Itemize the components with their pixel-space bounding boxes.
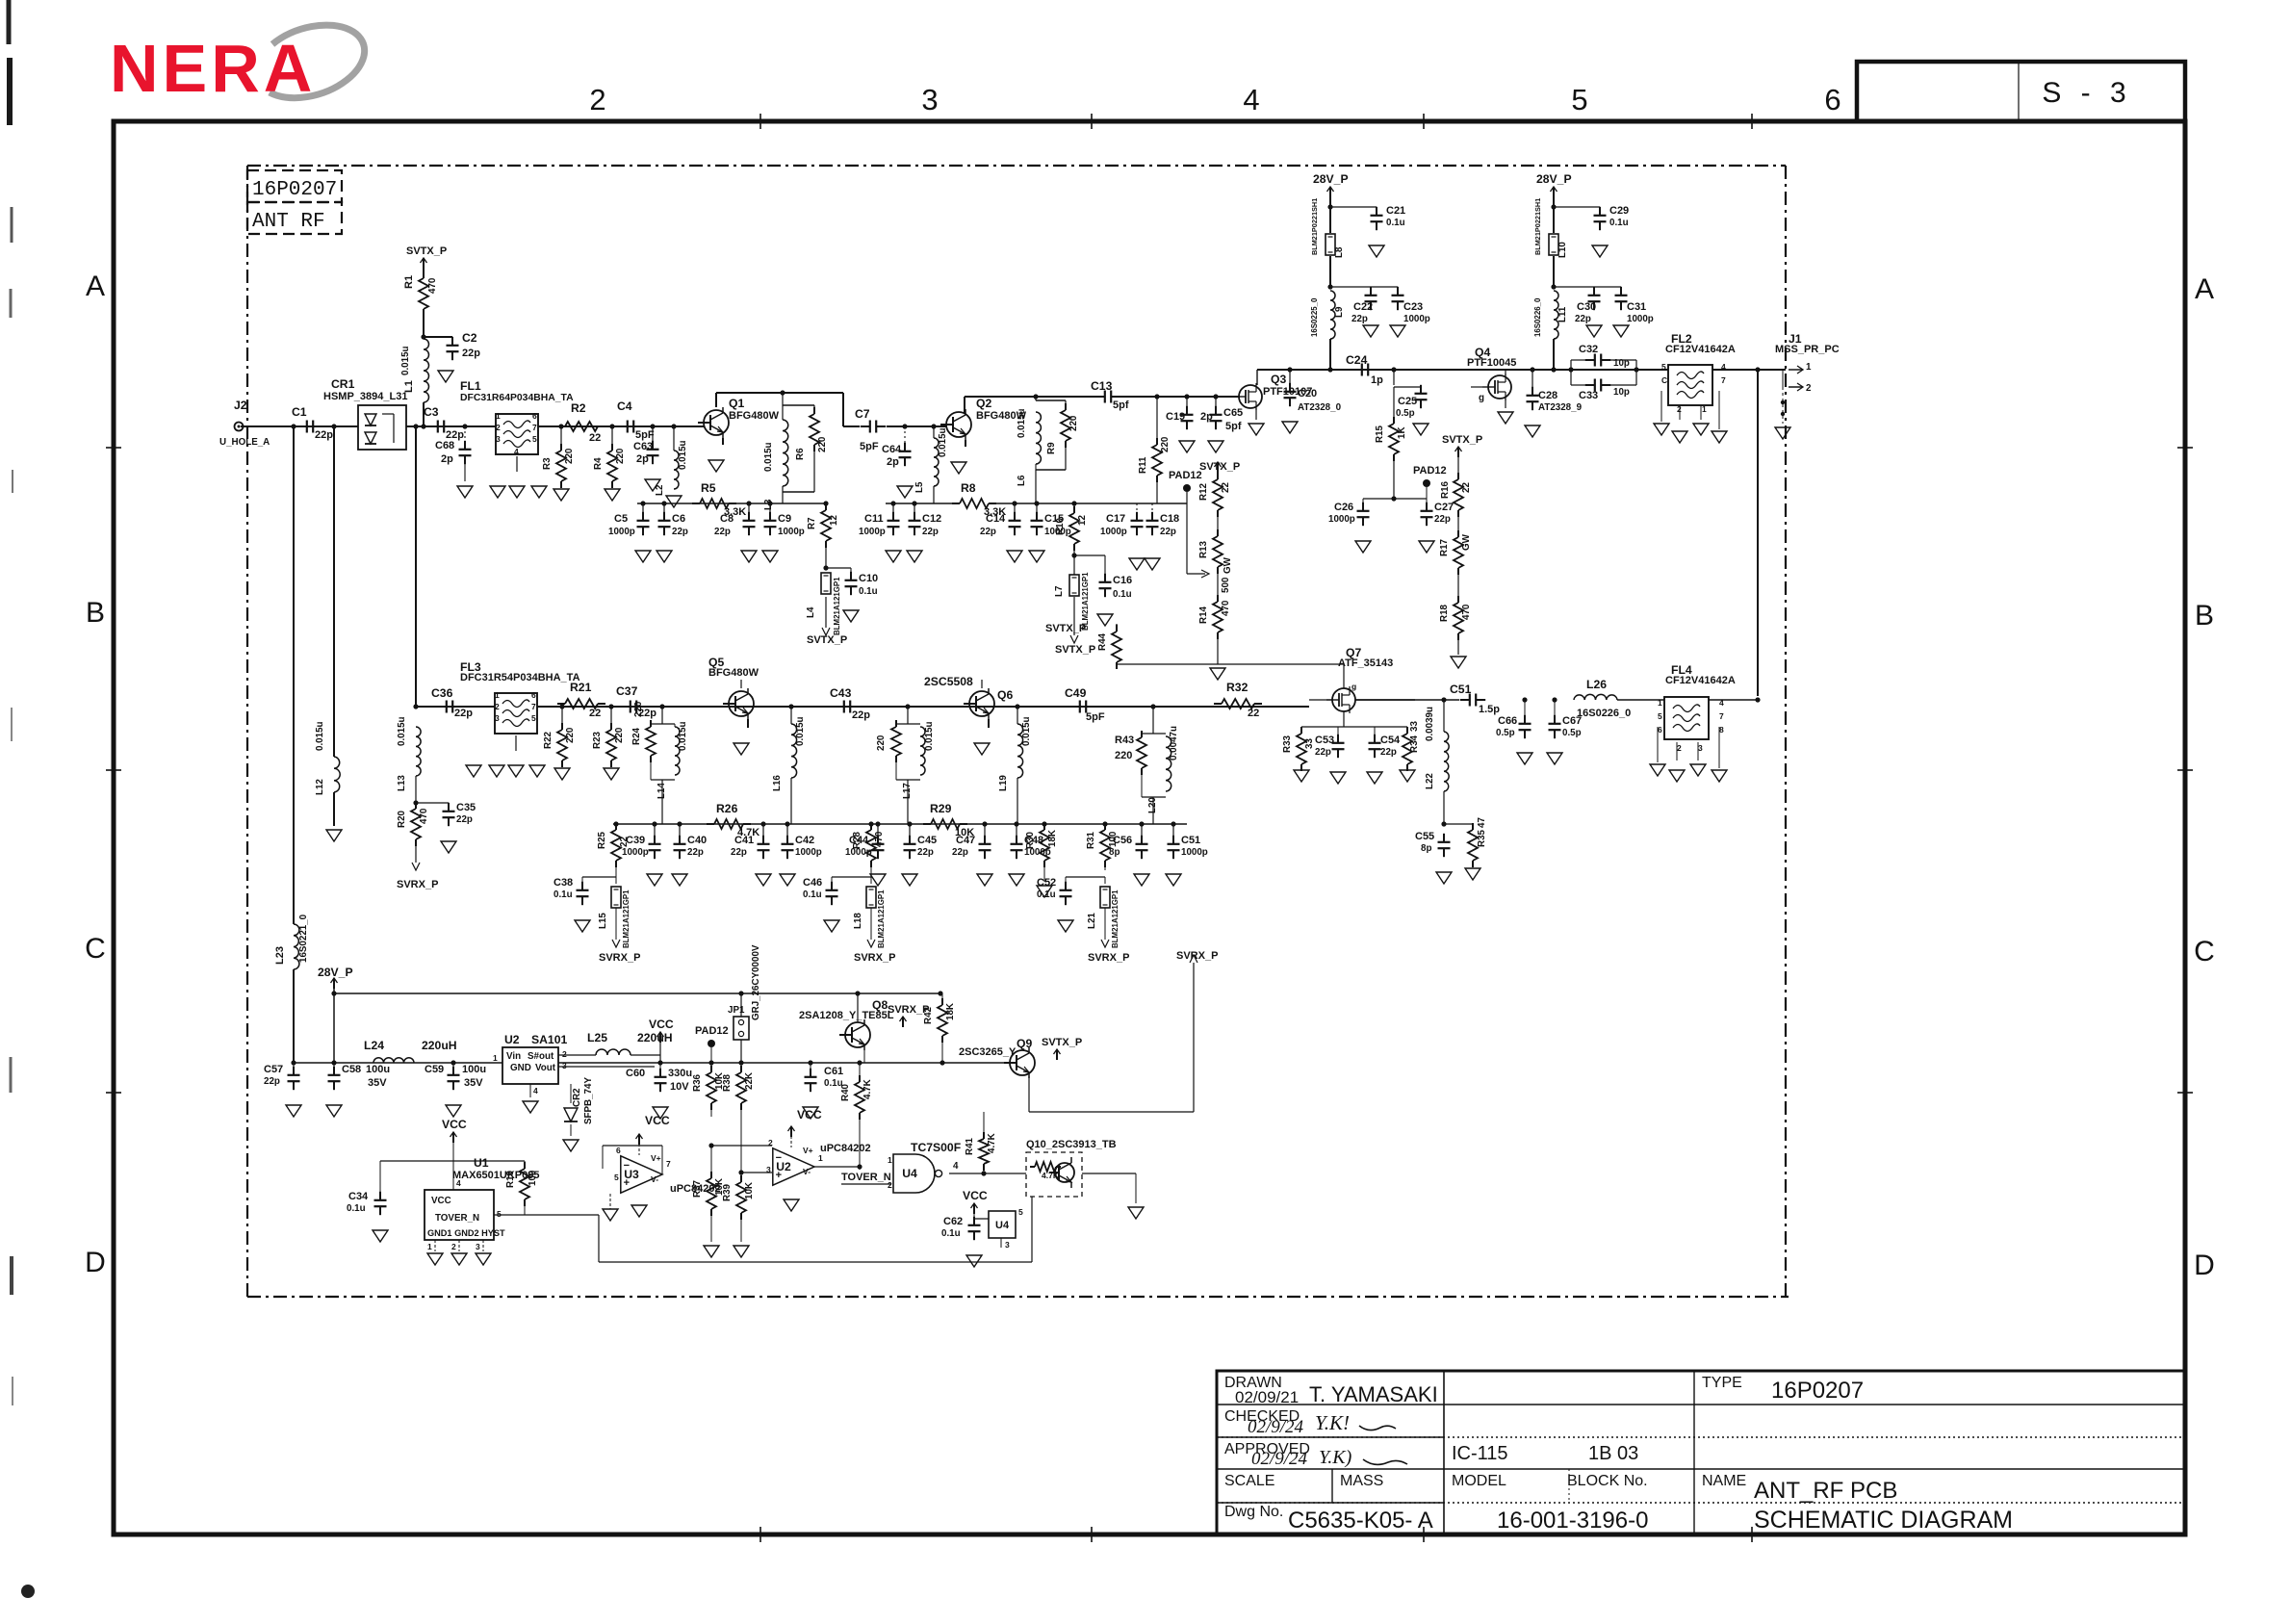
svg-text:AT2328_0: AT2328_0 [1298, 402, 1342, 413]
svg-text:220: 220 [817, 436, 828, 452]
svg-text:IC-115: IC-115 [1452, 1443, 1508, 1464]
svg-text:B: B [2195, 600, 2214, 632]
svg-text:2: 2 [495, 702, 500, 711]
svg-text:8p: 8p [1109, 847, 1120, 858]
svg-text:L19: L19 [998, 775, 1009, 791]
svg-text:L12: L12 [315, 779, 325, 795]
svg-text:6: 6 [532, 411, 537, 421]
svg-text:22p: 22p [456, 814, 473, 825]
svg-text:PAD12: PAD12 [1413, 465, 1447, 477]
svg-text:D: D [85, 1247, 106, 1278]
svg-text:C13: C13 [1091, 379, 1113, 393]
svg-text:C5635-K05- A: C5635-K05- A [1288, 1508, 1433, 1534]
svg-text:C45: C45 [917, 835, 937, 846]
svg-text:22p: 22p [1434, 514, 1451, 525]
svg-text:22p: 22p [952, 847, 968, 858]
svg-text:TC7S00F: TC7S00F [911, 1141, 961, 1154]
svg-text:22p: 22p [264, 1076, 280, 1087]
svg-text:SFPB_74Y: SFPB_74Y [583, 1077, 594, 1124]
svg-text:3: 3 [495, 713, 500, 723]
svg-text:JP1: JP1 [728, 1005, 745, 1016]
svg-text:R2: R2 [571, 401, 586, 415]
svg-text:L11: L11 [1557, 306, 1568, 322]
svg-text:+: + [776, 1170, 782, 1181]
svg-text:C: C [2194, 936, 2215, 967]
svg-text:GW: GW [1223, 556, 1233, 574]
svg-text:R15: R15 [1375, 425, 1385, 443]
svg-text:L1: L1 [403, 380, 415, 393]
svg-text:16S0226_0: 16S0226_0 [1577, 708, 1631, 719]
svg-text:S#out: S#out [528, 1051, 554, 1062]
svg-text:500: 500 [1221, 577, 1231, 593]
svg-text:−: − [776, 1152, 782, 1164]
svg-text:R13: R13 [1198, 540, 1209, 558]
svg-text:C35: C35 [456, 802, 476, 813]
svg-text:L16: L16 [772, 775, 783, 791]
svg-text:C17: C17 [1106, 513, 1125, 525]
svg-text:PAD12: PAD12 [695, 1025, 729, 1037]
svg-text:C57: C57 [264, 1064, 283, 1075]
svg-text:SVRX_P: SVRX_P [1176, 950, 1218, 962]
svg-text:C29: C29 [1609, 205, 1629, 217]
svg-text:5: 5 [1658, 711, 1662, 721]
svg-text:22p: 22p [922, 527, 939, 537]
svg-text:0.1u: 0.1u [1386, 218, 1405, 228]
svg-text:1: 1 [496, 411, 501, 421]
svg-text:C65: C65 [1223, 407, 1243, 419]
svg-text:C9: C9 [778, 513, 791, 525]
svg-text:R1: R1 [403, 275, 415, 289]
svg-text:C47: C47 [956, 835, 975, 846]
svg-text:1.5p: 1.5p [1479, 704, 1500, 715]
svg-text:L21: L21 [1087, 913, 1097, 929]
svg-text:C43: C43 [830, 686, 852, 700]
svg-text:0.015u: 0.015u [315, 721, 325, 751]
svg-text:GND: GND [510, 1063, 531, 1073]
svg-text:R14: R14 [1198, 606, 1209, 624]
svg-text:R44: R44 [1097, 632, 1108, 651]
svg-text:C18: C18 [1160, 513, 1179, 525]
svg-text:CF12V41642A: CF12V41642A [1665, 675, 1736, 686]
svg-text:R29: R29 [930, 802, 952, 815]
svg-text:330u: 330u [668, 1068, 692, 1079]
svg-text:C7: C7 [855, 407, 870, 421]
svg-text:2SC3265_Y: 2SC3265_Y [959, 1046, 1017, 1058]
svg-text:BFG480W: BFG480W [708, 667, 759, 679]
svg-text:SVTX_P: SVTX_P [406, 245, 447, 257]
svg-text:7: 7 [1721, 375, 1726, 385]
svg-text:SVRX_P: SVRX_P [854, 952, 895, 964]
svg-text:g: g [1351, 682, 1356, 691]
svg-text:6: 6 [616, 1146, 621, 1155]
svg-text:C12: C12 [922, 513, 941, 525]
svg-text:uPC84202: uPC84202 [820, 1143, 871, 1154]
svg-text:NERA: NERA [110, 31, 316, 106]
svg-text:C27: C27 [1434, 502, 1454, 513]
svg-text:FL1: FL1 [460, 379, 481, 393]
svg-text:GRJ_26CY0000V: GRJ_26CY0000V [751, 944, 761, 1020]
svg-text:C: C [85, 933, 106, 965]
svg-text:220: 220 [564, 448, 575, 464]
svg-text:2p: 2p [887, 456, 899, 468]
svg-text:470: 470 [1461, 604, 1472, 620]
svg-text:1000p: 1000p [1181, 847, 1208, 858]
svg-text:ANT_RF PCB: ANT_RF PCB [1754, 1478, 1897, 1504]
svg-text:VCC: VCC [431, 1196, 451, 1206]
svg-text:02/09/21: 02/09/21 [1235, 1388, 1299, 1406]
svg-text:R36: R36 [692, 1073, 703, 1092]
svg-text:22p: 22p [672, 527, 688, 537]
svg-text:470: 470 [427, 277, 438, 294]
svg-text:1000p: 1000p [1100, 527, 1127, 537]
svg-text:0.015u: 0.015u [678, 721, 688, 751]
svg-text:L25: L25 [587, 1031, 607, 1044]
svg-text:1000p: 1000p [778, 527, 805, 537]
svg-text:Y.K): Y.K) [1319, 1447, 1352, 1468]
svg-text:4: 4 [1721, 362, 1726, 372]
svg-text:C68: C68 [435, 440, 454, 451]
svg-text:22K: 22K [744, 1072, 755, 1090]
svg-text:5pF: 5pF [860, 441, 879, 452]
svg-text:1K: 1K [1397, 426, 1407, 439]
svg-text:BLM21A121GP1: BLM21A121GP1 [622, 889, 631, 948]
svg-text:C4: C4 [617, 400, 632, 413]
svg-text:TYPE: TYPE [1702, 1375, 1742, 1391]
svg-text:10V: 10V [670, 1081, 689, 1093]
svg-text:R21: R21 [570, 681, 592, 694]
svg-text:AT2328_9: AT2328_9 [1538, 402, 1583, 413]
svg-text:5: 5 [531, 713, 536, 723]
svg-text:R42: R42 [923, 1006, 934, 1024]
svg-text:C40: C40 [687, 835, 707, 846]
svg-text:220: 220 [615, 448, 626, 464]
svg-text:6: 6 [531, 690, 536, 700]
svg-text:1p: 1p [1371, 374, 1383, 386]
svg-text:220: 220 [633, 701, 644, 717]
svg-text:J2: J2 [234, 399, 247, 412]
svg-text:R4: R4 [593, 457, 604, 470]
svg-text:22p: 22p [315, 429, 333, 441]
svg-text:7: 7 [1719, 711, 1724, 721]
svg-text:S - 3: S - 3 [2042, 77, 2131, 109]
svg-text:BFG480W: BFG480W [729, 410, 780, 422]
svg-text:22p: 22p [454, 708, 473, 719]
svg-text:470: 470 [874, 831, 885, 847]
svg-text:47: 47 [1477, 817, 1487, 828]
svg-text:35V: 35V [464, 1077, 483, 1089]
svg-text:B: B [86, 597, 105, 629]
svg-text:BLM21P0221SH1: BLM21P0221SH1 [1310, 198, 1319, 255]
svg-text:5pf: 5pf [1225, 421, 1242, 432]
svg-text:22p: 22p [917, 847, 934, 858]
svg-text:0.0047u: 0.0047u [1169, 726, 1179, 760]
svg-text:R30: R30 [1025, 831, 1036, 849]
svg-text:PTF10045: PTF10045 [1467, 357, 1516, 369]
svg-text:Q2: Q2 [976, 397, 991, 410]
svg-text:L10: L10 [1557, 242, 1568, 258]
svg-text:22: 22 [1248, 708, 1259, 719]
svg-text:2: 2 [562, 1049, 567, 1059]
svg-text:R8: R8 [961, 481, 976, 495]
svg-text:Q6: Q6 [997, 688, 1013, 702]
svg-text:R38: R38 [722, 1073, 733, 1092]
svg-text:L24: L24 [364, 1039, 384, 1052]
svg-text:0.5p: 0.5p [1396, 408, 1415, 419]
svg-text:6: 6 [1658, 725, 1662, 735]
svg-text:C51: C51 [1181, 835, 1200, 846]
svg-text:U_HOLE_A: U_HOLE_A [219, 437, 270, 448]
svg-text:C23: C23 [1403, 301, 1423, 313]
svg-text:C22: C22 [1353, 301, 1373, 313]
svg-text:−: − [624, 1160, 630, 1172]
svg-text:R34: R34 [1409, 735, 1420, 753]
svg-text:220: 220 [876, 735, 887, 751]
svg-text:R33: R33 [1282, 735, 1293, 753]
svg-text:C34: C34 [348, 1191, 369, 1202]
svg-text:BLM21P0221SH1: BLM21P0221SH1 [1533, 198, 1542, 255]
svg-text:0.1u: 0.1u [803, 889, 822, 900]
svg-text:ATF_35143: ATF_35143 [1338, 657, 1393, 669]
svg-text:5: 5 [532, 434, 537, 444]
svg-text:16S0226_0: 16S0226_0 [1533, 297, 1542, 337]
svg-text:1: 1 [1806, 362, 1812, 373]
svg-text:470: 470 [419, 808, 429, 824]
svg-text:8: 8 [1719, 725, 1724, 735]
svg-text:C58: C58 [342, 1064, 361, 1075]
svg-text:28V_P: 28V_P [1313, 172, 1349, 186]
svg-text:L23: L23 [274, 946, 286, 965]
svg-text:C24: C24 [1346, 353, 1368, 367]
svg-text:22p: 22p [1160, 527, 1176, 537]
svg-text:35V: 35V [368, 1077, 387, 1089]
svg-text:22p: 22p [1315, 747, 1331, 758]
svg-text:R6: R6 [795, 448, 806, 460]
svg-text:28V_P: 28V_P [318, 966, 353, 979]
svg-text:16P0207: 16P0207 [1771, 1378, 1864, 1404]
svg-text:VCC: VCC [645, 1114, 670, 1127]
svg-text:C55: C55 [1415, 831, 1434, 842]
svg-text:R40: R40 [840, 1083, 851, 1101]
svg-text:3: 3 [1698, 743, 1703, 753]
svg-text:L4: L4 [806, 606, 816, 618]
svg-text:C30: C30 [1577, 301, 1596, 313]
svg-text:Dwg No.: Dwg No. [1224, 1504, 1283, 1520]
svg-text:220: 220 [1160, 436, 1171, 452]
svg-text:C20: C20 [1298, 388, 1317, 400]
svg-text:DFC31R54P034BHA_TA: DFC31R54P034BHA_TA [460, 672, 580, 683]
svg-text:1: 1 [495, 690, 500, 700]
svg-text:PAD12: PAD12 [1169, 470, 1202, 481]
svg-text:22p: 22p [1575, 314, 1591, 324]
svg-text:0.015u: 0.015u [924, 721, 935, 751]
svg-text:7: 7 [531, 702, 536, 711]
svg-text:C31: C31 [1627, 301, 1646, 313]
svg-text:1000p: 1000p [608, 527, 635, 537]
svg-text:1000p: 1000p [622, 847, 649, 858]
svg-text:220: 220 [1115, 750, 1132, 761]
svg-text:0.1u: 0.1u [1609, 218, 1629, 228]
svg-text:V+: V+ [651, 1153, 661, 1163]
svg-text:5: 5 [614, 1173, 619, 1182]
svg-text:0.015u: 0.015u [1017, 408, 1027, 438]
svg-text:22p: 22p [731, 847, 747, 858]
svg-text:L13: L13 [397, 775, 407, 791]
svg-text:R18: R18 [1439, 604, 1450, 622]
svg-text:MSS_PR_PC: MSS_PR_PC [1775, 344, 1840, 355]
svg-text:R31: R31 [1086, 831, 1096, 849]
svg-text:C8: C8 [720, 513, 734, 525]
svg-text:SVTX_P: SVTX_P [1042, 1037, 1082, 1048]
svg-text:BLM21A121GP1: BLM21A121GP1 [1081, 572, 1090, 631]
svg-text:C32: C32 [1579, 344, 1598, 355]
svg-text:C42: C42 [795, 835, 814, 846]
svg-text:BLM21A121GP1: BLM21A121GP1 [877, 889, 886, 948]
svg-text:4.7K: 4.7K [862, 1079, 873, 1099]
svg-text:1: 1 [1658, 698, 1662, 708]
svg-text:2: 2 [888, 1180, 892, 1190]
svg-text:0.1u: 0.1u [941, 1228, 961, 1239]
svg-text:4.7K: 4.7K [987, 1133, 997, 1153]
svg-text:C37: C37 [616, 684, 638, 698]
svg-text:R12: R12 [1198, 482, 1209, 501]
svg-text:C25: C25 [1398, 396, 1417, 407]
svg-text:4: 4 [514, 447, 519, 456]
svg-text:R41: R41 [965, 1137, 975, 1155]
svg-text:1: 1 [427, 1242, 432, 1251]
svg-text:R35: R35 [1477, 829, 1487, 847]
svg-text:22: 22 [1221, 482, 1231, 493]
svg-text:MASS: MASS [1340, 1473, 1383, 1489]
svg-text:R25: R25 [597, 831, 607, 849]
svg-text:L9: L9 [1334, 306, 1345, 318]
svg-text:2: 2 [451, 1242, 456, 1251]
svg-text:C26: C26 [1334, 502, 1353, 513]
svg-text:C59: C59 [425, 1064, 444, 1075]
svg-text:C: C [1661, 375, 1667, 385]
svg-text:SVRX_P: SVRX_P [397, 879, 438, 890]
svg-text:220: 220 [565, 727, 576, 743]
svg-text:0.1u: 0.1u [859, 586, 878, 597]
svg-text:GW: GW [1461, 533, 1472, 551]
svg-text:10K: 10K [744, 1182, 755, 1199]
svg-text:SCHEMATIC DIAGRAM: SCHEMATIC DIAGRAM [1754, 1507, 2013, 1534]
svg-text:5pF: 5pF [1086, 711, 1105, 723]
svg-text:Q9: Q9 [1017, 1037, 1032, 1050]
svg-text:2p: 2p [441, 453, 453, 465]
svg-text:R7: R7 [807, 517, 817, 529]
svg-text:7: 7 [532, 423, 537, 432]
svg-text:22: 22 [589, 432, 601, 444]
svg-text:4: 4 [1243, 83, 1259, 116]
svg-text:3: 3 [496, 434, 501, 444]
svg-text:8p: 8p [1421, 843, 1431, 854]
svg-text:TOVER_N: TOVER_N [435, 1213, 479, 1224]
svg-text:2: 2 [589, 83, 605, 116]
svg-text:16P0207: 16P0207 [252, 179, 337, 201]
svg-text:33: 33 [1409, 721, 1420, 732]
svg-text:U2: U2 [504, 1033, 520, 1046]
svg-text:3: 3 [562, 1061, 567, 1070]
svg-text:D: D [2194, 1250, 2215, 1281]
svg-text:16S0225_0: 16S0225_0 [1310, 297, 1319, 337]
svg-text:0.5p: 0.5p [1562, 728, 1582, 738]
svg-text:ANT RF: ANT RF [252, 211, 325, 233]
svg-text:0.015u: 0.015u [1021, 716, 1032, 746]
svg-text:5pF: 5pF [635, 429, 655, 441]
svg-text:Y.K!: Y.K! [1315, 1411, 1350, 1434]
svg-text:A: A [2195, 273, 2214, 305]
svg-text:22p: 22p [462, 348, 480, 359]
svg-text:Vout: Vout [535, 1063, 556, 1073]
svg-text:C52: C52 [1037, 877, 1056, 889]
svg-text:2: 2 [1677, 743, 1682, 753]
svg-text:CF12V41642A: CF12V41642A [1665, 344, 1736, 355]
svg-text:33: 33 [1304, 738, 1315, 749]
svg-text:10p: 10p [1613, 387, 1630, 398]
svg-text:1B 03: 1B 03 [1588, 1443, 1638, 1464]
svg-text:NAME: NAME [1702, 1473, 1746, 1489]
svg-text:SVTX_P: SVTX_P [1199, 461, 1240, 473]
svg-text:C28: C28 [1538, 390, 1557, 401]
svg-text:C38: C38 [553, 877, 573, 889]
svg-text:L7: L7 [1054, 585, 1065, 597]
svg-text:BLOCK No.: BLOCK No. [1567, 1473, 1648, 1489]
svg-text:g: g [1479, 393, 1484, 403]
svg-text:5pf: 5pf [1113, 400, 1129, 411]
svg-text:C5: C5 [614, 513, 628, 525]
svg-text:VCC: VCC [963, 1189, 988, 1202]
svg-text:L17: L17 [902, 783, 913, 799]
svg-text:0.015u: 0.015u [763, 442, 774, 472]
svg-text:0.1u: 0.1u [1037, 889, 1056, 900]
svg-text:C54: C54 [1380, 735, 1401, 746]
svg-text:L14: L14 [656, 783, 667, 799]
svg-text:U4: U4 [902, 1167, 917, 1180]
svg-text:SVRX_P: SVRX_P [599, 952, 640, 964]
svg-text:0.5p: 0.5p [1496, 728, 1515, 738]
svg-text:0.1u: 0.1u [553, 889, 573, 900]
svg-text:VCC: VCC [797, 1108, 822, 1121]
svg-text:C16: C16 [1113, 575, 1132, 586]
svg-text:R16: R16 [1440, 480, 1451, 499]
svg-text:R26: R26 [716, 802, 738, 815]
svg-text:C51: C51 [1450, 683, 1472, 696]
svg-text:GND1 GND2 HYST: GND1 GND2 HYST [427, 1228, 505, 1238]
svg-text:0.015u: 0.015u [397, 716, 407, 746]
svg-text:C46: C46 [803, 877, 822, 889]
svg-text:C21: C21 [1386, 205, 1405, 217]
svg-text:22: 22 [619, 837, 630, 847]
svg-text:C19: C19 [1166, 411, 1185, 423]
svg-text:470: 470 [1221, 600, 1231, 616]
svg-text:R20: R20 [397, 810, 407, 828]
svg-text:R17: R17 [1439, 538, 1450, 556]
svg-text:3: 3 [476, 1242, 480, 1251]
svg-text:C63: C63 [633, 441, 653, 452]
svg-text:BLM21A121GP1: BLM21A121GP1 [833, 577, 841, 635]
svg-text:0.1u: 0.1u [347, 1203, 366, 1214]
svg-text:1000p: 1000p [1627, 314, 1654, 324]
svg-text:1: 1 [1702, 404, 1707, 414]
svg-text:R11: R11 [1138, 456, 1148, 474]
svg-text:MODEL: MODEL [1452, 1473, 1506, 1489]
svg-text:DFC31R64P034BHA_TA: DFC31R64P034BHA_TA [460, 393, 574, 403]
svg-text:SVTX_P: SVTX_P [1045, 623, 1086, 634]
svg-text:220uH: 220uH [637, 1031, 673, 1044]
svg-text:R39: R39 [722, 1183, 733, 1201]
svg-text:22: 22 [1461, 482, 1472, 493]
svg-text:R22: R22 [543, 731, 553, 749]
